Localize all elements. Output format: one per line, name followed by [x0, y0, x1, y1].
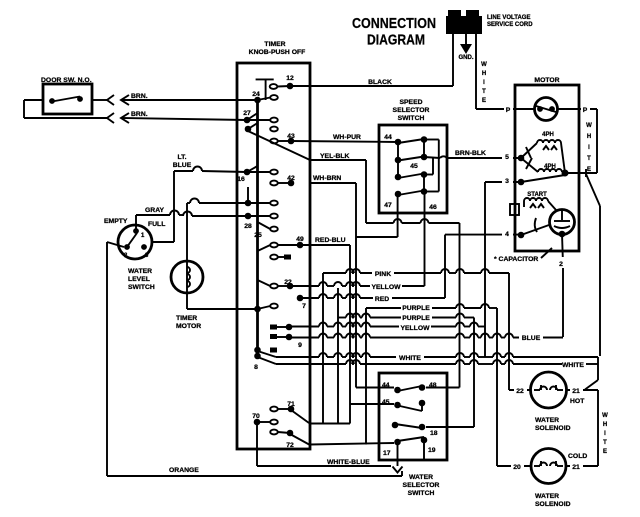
- svg-text:RED-BLU: RED-BLU: [315, 237, 346, 244]
- timer terminal 24: [252, 91, 278, 103]
- wire BRN upper with connector chevrons: [92, 93, 257, 105]
- svg-text:28: 28: [244, 223, 252, 230]
- svg-text:WATER: WATER: [128, 268, 152, 275]
- connector arrow: [393, 467, 403, 473]
- svg-text:9: 9: [298, 342, 302, 349]
- label TIMER MOTOR: [176, 315, 201, 330]
- water level switch: [104, 218, 165, 259]
- svg-text:E: E: [482, 98, 486, 104]
- svg-text:WH-BRN: WH-BRN: [313, 175, 341, 182]
- svg-text:BLUE: BLUE: [173, 162, 192, 169]
- label 4: [502, 227, 513, 238]
- wire cold solenoid 21 to white riser: [566, 465, 598, 467]
- wire WHITE bus row 1 to hot solenoid 21: [276, 353, 598, 390]
- wire YELLOW timer 22 to speed selector 46 riser: [290, 282, 425, 424]
- svg-text:44: 44: [382, 382, 390, 389]
- label WHITE vertical motor: [586, 123, 592, 173]
- wire timer 70 down to WHITE-BLUE row: [256, 422, 258, 466]
- svg-text:BRN.: BRN.: [131, 93, 148, 100]
- wire BRN lower with connector chevrons: [107, 111, 246, 123]
- timer terminal 16: [237, 166, 278, 183]
- motor start switch 4: [518, 218, 549, 238]
- wire timer motor bottom to timer box: [187, 293, 255, 309]
- timer terminal 70: [252, 413, 278, 425]
- timer box TIMER KNOB-PUSH OFF: [237, 41, 310, 449]
- svg-text:44: 44: [384, 134, 392, 141]
- label YELLOW 2: [399, 321, 431, 332]
- wire motor 3 riser: [485, 182, 521, 357]
- svg-text:GND.: GND.: [459, 55, 474, 61]
- label YELLOW: [370, 280, 402, 291]
- svg-text:45: 45: [410, 163, 418, 170]
- svg-text:P: P: [506, 107, 511, 114]
- timer terminal 7: [297, 295, 306, 310]
- svg-text:SOLENOID: SOLENOID: [535, 501, 571, 508]
- wire PURPLE 2 to water selector 18: [338, 314, 474, 428]
- svg-text:RED: RED: [375, 296, 389, 303]
- svg-text:19: 19: [428, 447, 436, 454]
- svg-text:PURPLE: PURPLE: [402, 315, 430, 322]
- label P right: [581, 103, 590, 114]
- svg-text:E: E: [587, 167, 591, 173]
- svg-text:LEVEL: LEVEL: [128, 276, 150, 283]
- svg-text:27: 27: [243, 110, 251, 117]
- svg-text:WH-PUR: WH-PUR: [333, 134, 361, 141]
- label LT. BLUE: [173, 154, 192, 169]
- svg-text:12: 12: [286, 75, 294, 82]
- svg-text:GRAY: GRAY: [145, 207, 164, 214]
- hot water solenoid: [531, 372, 567, 408]
- wire junction diagonal to white riser: [586, 169, 600, 356]
- wire cold solenoid 20 feed: [497, 465, 531, 467]
- label 21 hot: [570, 384, 583, 395]
- label BLUE: [519, 331, 543, 342]
- wire P service cord to motor: [476, 108, 535, 110]
- label WHITE vertical service cord: [481, 62, 487, 104]
- wire WHITE bus row 2 to hot solenoid 21: [276, 360, 598, 364]
- svg-text:22: 22: [516, 388, 524, 395]
- speed selector switch: [379, 99, 447, 213]
- svg-text:8: 8: [254, 364, 258, 371]
- svg-text:T: T: [603, 440, 607, 446]
- svg-text:25: 25: [254, 232, 262, 239]
- wire timer motor top to timer 28: [187, 199, 248, 262]
- water selector switch: [379, 373, 447, 460]
- wire BLACK timer 12 to service cord: [290, 85, 453, 87]
- label PURPLE lower: [401, 311, 432, 322]
- wire WH-BRN timer 42 to water selector 44: [310, 183, 394, 388]
- label RED: [373, 292, 392, 303]
- timer terminal 43: [270, 133, 295, 144]
- label 2: [557, 257, 567, 268]
- label P left: [504, 103, 513, 114]
- svg-text:SWITCH: SWITCH: [408, 490, 435, 497]
- timer terminal 72: [270, 430, 394, 449]
- svg-text:START: START: [527, 192, 547, 198]
- svg-text:SWITCH: SWITCH: [398, 115, 425, 122]
- wire door switch loop left side: [24, 100, 107, 118]
- timer contact lug row 257: [270, 255, 291, 260]
- svg-text:WHITE-BLUE: WHITE-BLUE: [327, 459, 370, 466]
- wire service cord ground pin: [465, 34, 467, 44]
- svg-text:SWITCH: SWITCH: [128, 284, 155, 291]
- svg-text:COLD: COLD: [568, 453, 587, 460]
- timer motor: [171, 261, 203, 293]
- svg-text:MOTOR: MOTOR: [534, 77, 559, 84]
- motor winding 4PH upper: [537, 132, 565, 173]
- timer contact lug row 306: [254, 304, 278, 313]
- svg-text:BRN.: BRN.: [131, 111, 148, 118]
- svg-text:T: T: [482, 89, 486, 95]
- svg-text:BLUE: BLUE: [522, 335, 541, 342]
- svg-text:BRN-BLK: BRN-BLK: [455, 150, 486, 157]
- timer contact row 327: [270, 324, 292, 331]
- wire speed selector 46 down to YELLOW: [424, 192, 426, 286]
- svg-text:FULL: FULL: [148, 221, 165, 228]
- svg-text:H: H: [482, 71, 486, 77]
- wire GRAY water level switch 1 to timer: [136, 211, 248, 232]
- svg-text:45: 45: [382, 399, 390, 406]
- svg-text:4: 4: [505, 231, 509, 238]
- svg-text:W: W: [481, 62, 487, 68]
- svg-text:PINK: PINK: [375, 271, 391, 278]
- svg-text:CONNECTION: CONNECTION: [352, 16, 436, 32]
- svg-text:P: P: [583, 107, 588, 114]
- label 20: [511, 460, 524, 471]
- wire PINK riser to hot solenoid: [323, 269, 509, 424]
- label WATER SOLENOID cold: [535, 493, 571, 508]
- wire speed selector 47 down and left: [356, 194, 398, 237]
- door switch DOOR SW. N.O.: [41, 77, 92, 114]
- label WHITE row1: [396, 351, 424, 362]
- svg-text:* CAPACITOR: * CAPACITOR: [494, 256, 538, 263]
- svg-text:LT.: LT.: [178, 154, 187, 161]
- svg-text:24: 24: [252, 91, 260, 98]
- timer contacts 28 25: [244, 187, 278, 239]
- timer terminal 27: [243, 110, 278, 123]
- svg-text:WATER: WATER: [535, 493, 559, 500]
- wire PURPLE 1 riser to cold solenoid: [366, 304, 497, 466]
- svg-text:18: 18: [430, 430, 438, 437]
- svg-text:48: 48: [429, 382, 437, 389]
- svg-text:47: 47: [384, 202, 392, 209]
- svg-text:46: 46: [429, 204, 437, 211]
- wire RED timer 7 to motor 4: [300, 235, 521, 298]
- wire service cord left pin to BLACK node: [452, 34, 454, 86]
- svg-text:WHITE: WHITE: [399, 355, 421, 362]
- svg-text:KNOB-PUSH OFF: KNOB-PUSH OFF: [249, 49, 306, 56]
- svg-text:T: T: [587, 156, 591, 162]
- svg-text:LINE VOLTAGE: LINE VOLTAGE: [487, 15, 530, 21]
- svg-text:7: 7: [302, 303, 306, 310]
- wire hot solenoid 22 feed: [509, 389, 530, 391]
- svg-text:SERVICE CORD: SERVICE CORD: [487, 22, 533, 28]
- label CAPACITOR: [494, 248, 552, 263]
- svg-text:17: 17: [383, 450, 391, 457]
- timer terminal 8 cluster: [254, 347, 277, 371]
- wire YELLOW 2 timer to junction: [289, 323, 485, 327]
- motor capacitor circle: [550, 210, 575, 238]
- svg-text:WHITE: WHITE: [562, 362, 584, 369]
- svg-text:H: H: [603, 422, 607, 428]
- wire water level switch 2 down left side: [107, 242, 124, 476]
- motor START winding: [510, 192, 556, 215]
- wire timer 71 row to water selector 17: [309, 423, 350, 425]
- line voltage service cord plug: [446, 10, 482, 34]
- label PURPLE upper: [401, 301, 432, 312]
- svg-text:SELECTOR: SELECTOR: [393, 107, 430, 114]
- title CONNECTION DIAGRAM: [352, 16, 436, 49]
- timer terminal 12: [270, 75, 294, 89]
- timer internal bus: [256, 79, 274, 355]
- label WHITE vertical right: [602, 413, 608, 455]
- label 21 cold: [570, 460, 583, 471]
- svg-text:16: 16: [237, 176, 245, 183]
- cold water solenoid: [531, 449, 566, 484]
- wire ORANGE bottom bus: [107, 471, 402, 476]
- svg-text:HOT: HOT: [570, 398, 585, 405]
- svg-text:ORANGE: ORANGE: [169, 467, 199, 474]
- motor protector circle: [515, 98, 579, 121]
- ground arrow: [460, 44, 472, 54]
- motor speed switch 5: [518, 143, 538, 172]
- wire WH-PUR timer 43 to speed selector 44: [291, 141, 398, 142]
- label WATER SELECTOR SWITCH: [403, 474, 440, 497]
- wire WHITE-BLUE row to connector: [257, 465, 391, 467]
- svg-text:YELLOW: YELLOW: [371, 284, 401, 291]
- svg-text:4PH: 4PH: [542, 132, 554, 138]
- svg-text:WATER: WATER: [409, 474, 433, 481]
- svg-text:PURPLE: PURPLE: [402, 305, 430, 312]
- timer terminal 9: [270, 334, 302, 349]
- label 5: [502, 150, 513, 161]
- timer terminal 49: [258, 236, 304, 251]
- svg-text:W: W: [602, 413, 608, 419]
- svg-text:W: W: [586, 123, 592, 129]
- svg-text:5: 5: [505, 154, 509, 161]
- svg-text:2: 2: [559, 261, 563, 268]
- timer terminal 71: [270, 401, 309, 423]
- svg-text:EMPTY: EMPTY: [104, 218, 128, 225]
- wire water selector 17 down to connector: [397, 442, 399, 466]
- label LINE VOLTAGE SERVICE CORD: [487, 15, 533, 28]
- wire motor P right loop: [565, 109, 597, 173]
- svg-text:BLACK: BLACK: [368, 79, 392, 86]
- label WATER SOLENOID hot: [535, 417, 571, 432]
- svg-text:TIMER: TIMER: [264, 41, 285, 48]
- wire BRN-BLK speed selector to motor 5: [424, 156, 521, 158]
- svg-text:3: 3: [505, 178, 509, 185]
- wire LT.BLUE water level switch 3 to timer 16: [152, 167, 247, 243]
- timer terminal 22: [258, 279, 294, 289]
- wire service cord right pin down to motor P: [475, 34, 477, 109]
- svg-text:MOTOR: MOTOR: [176, 323, 201, 330]
- svg-text:TIMER: TIMER: [176, 315, 197, 322]
- motor winding 4PH lower: [538, 164, 569, 177]
- wire hot solenoid 21 to white riser: [567, 390, 599, 466]
- svg-text:E: E: [603, 449, 607, 455]
- svg-text:YEL-BLK: YEL-BLK: [320, 153, 350, 160]
- wire RED-BLU timer 49 to water selector 45: [300, 245, 394, 424]
- label WATER LEVEL SWITCH: [128, 268, 155, 291]
- svg-text:21: 21: [572, 388, 580, 395]
- label 22: [514, 384, 527, 395]
- motor box: [515, 77, 579, 251]
- svg-text:DIAGRAM: DIAGRAM: [367, 33, 425, 49]
- wire YEL-BLK timer to water selector 48: [310, 160, 460, 388]
- wire motor 3 to junction: [518, 175, 565, 185]
- label 3: [502, 174, 513, 185]
- svg-text:21: 21: [572, 464, 580, 471]
- svg-text:H: H: [587, 134, 591, 140]
- label PINK: [372, 267, 394, 278]
- wire capacitor 2 down to BLUE: [561, 234, 564, 258]
- svg-text:SELECTOR: SELECTOR: [403, 482, 440, 489]
- timer contact 26 with YEL-BLK takeoff: [245, 123, 310, 160]
- svg-text:72: 72: [286, 442, 294, 449]
- timer terminal 42: [270, 175, 295, 186]
- svg-text:YELLOW: YELLOW: [400, 325, 430, 332]
- wire BLUE motor 2 to timer: [289, 267, 563, 338]
- svg-text:SOLENOID: SOLENOID: [535, 425, 571, 432]
- svg-text:WATER: WATER: [535, 417, 559, 424]
- svg-text:20: 20: [513, 464, 521, 471]
- svg-text:SPEED: SPEED: [399, 99, 422, 106]
